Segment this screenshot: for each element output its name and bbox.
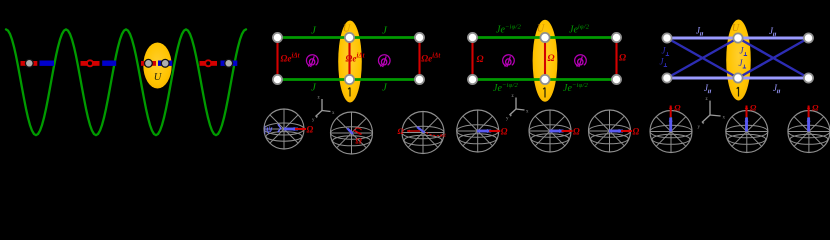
green link panel3 bottom2: [545, 78, 617, 81]
green link panel3 bottom1: [473, 78, 546, 81]
label 1 panel4 ellipse bottom: [737, 87, 739, 97]
label Jperp panel4 mid-lower: [739, 58, 747, 68]
red drive arrow sphere6: [621, 129, 632, 132]
navy diagonal Jperp panel4 down2: [738, 38, 809, 78]
well4 spin-up level (red): [200, 61, 218, 66]
interaction ellipse U panel4: [726, 20, 751, 101]
Bloch sphere 6 (panel3): [589, 110, 631, 152]
red drive arrow sphere3: [407, 130, 420, 133]
well3 atom on red level: [145, 59, 153, 67]
well3 spin-down level (blue): [158, 61, 172, 66]
green link J panel2 bottom2: [350, 78, 420, 81]
site panel2 bottom col1: [273, 75, 282, 84]
flux circle phi panel2 right plaquette: [378, 55, 390, 67]
well2 spin-up level (red): [81, 61, 100, 66]
svg-text:Ω: Ω: [812, 103, 819, 113]
svg-text:Ω: Ω: [398, 126, 405, 136]
green link panel3 top2: [545, 36, 617, 39]
svg-text:Ω: Ω: [548, 54, 555, 64]
site panel2 top col3: [415, 33, 424, 42]
well1 spin-down level (blue): [40, 61, 55, 66]
site panel3 bottom col2: [540, 75, 549, 84]
red drive arrow sphere2: [354, 130, 362, 135]
Bloch sphere 9 (panel4): [788, 111, 830, 153]
label Jperp panel4 left-upper: [662, 46, 670, 56]
site panel3 top col2: [540, 33, 549, 42]
well2 spin-down level (blue): [102, 61, 116, 66]
optical lattice potential: [6, 29, 246, 135]
label Jpar panel4 top-left: [696, 26, 703, 36]
site panel4 bottom col3: [804, 73, 813, 82]
green link J panel2 top1: [278, 36, 350, 39]
site panel3 bottom col3: [612, 75, 621, 84]
flux circle phi panel2 left plaquette: [306, 55, 318, 67]
interaction ellipse U well3: [143, 43, 171, 89]
svg-text:|ψ: |ψ: [264, 125, 273, 135]
svg-text:Ω: Ω: [573, 127, 580, 137]
site panel4 bottom col1: [662, 73, 671, 82]
svg-text:Ω: Ω: [477, 55, 484, 65]
site panel2 bottom col2: [345, 75, 354, 84]
lavender link Jpar panel4 bottom2: [738, 77, 809, 80]
site panel4 top col2: [733, 33, 742, 42]
blue state arrow sphere6: [609, 129, 623, 133]
label Jpar panel4 bottom-left: [704, 83, 711, 93]
Bloch sphere 3 (panel2 rotating drive): [402, 112, 444, 154]
label Jperp panel4 left-lower: [660, 57, 668, 67]
Bloch sphere 7 (panel4): [650, 111, 692, 153]
svg-text:U: U: [732, 23, 740, 34]
site panel4 bottom col2: [733, 73, 742, 82]
well1 spin-up level (red): [21, 61, 38, 66]
site panel3 bottom col1: [468, 75, 477, 84]
label 1 panel3 ellipse bottom: [543, 88, 545, 98]
svg-text:Ω: Ω: [307, 125, 314, 135]
site panel4 top col1: [662, 33, 671, 42]
flux circle phi panel3 left plaquette: [503, 55, 515, 67]
navy diagonal Jperp panel4 up1: [667, 38, 738, 78]
green link J panel2 bottom1: [278, 78, 350, 81]
site panel4 top col3: [804, 33, 813, 42]
site panel2 bottom col3: [415, 75, 424, 84]
svg-text:Ω: Ω: [356, 136, 363, 146]
svg-text:Ω: Ω: [501, 127, 508, 137]
well4 empty state (red ring): [205, 60, 211, 66]
svg-text:Ω: Ω: [750, 103, 757, 113]
site panel2 top col1: [273, 33, 282, 42]
red drive arrow sphere4: [489, 129, 500, 132]
site panel3 top col1: [468, 33, 477, 42]
lavender link Jpar panel4 bottom1: [667, 77, 738, 80]
red dashed rotation path sphere3: [426, 133, 442, 136]
red rotation arc sphere2: [355, 128, 362, 130]
navy diagonal Jperp panel4 down1: [667, 38, 738, 78]
label 1 panel2 ellipse bottom: [348, 88, 350, 97]
interaction ellipse U panel2: [338, 21, 362, 103]
well4 spin-down level (blue): [221, 61, 238, 66]
lavender link Jpar panel4 top2: [738, 37, 809, 40]
green link J panel2 top2: [350, 36, 420, 39]
red rung panel3 col2: [544, 38, 546, 80]
red drive arrow sphere9: [807, 106, 810, 118]
blue state arrow sphere9: [807, 118, 811, 132]
site panel3 top col3: [612, 33, 621, 42]
blue state arrow sphere8: [745, 118, 749, 132]
red rung panel2 col3: [418, 38, 420, 80]
site panel2 top col2: [345, 33, 354, 42]
blue state arrow sphere5: [550, 129, 564, 133]
red drive arrow sphere1: [295, 127, 306, 130]
svg-text:ωt: ωt: [440, 133, 446, 139]
navy diagonal Jperp panel4 up2: [738, 38, 809, 78]
blue state arrow sphere7: [669, 118, 673, 132]
axes icon 3: [702, 101, 721, 125]
interaction ellipse U panel3: [533, 20, 558, 102]
blue state arrow sphere4: [477, 129, 491, 133]
well3 atom on blue level: [161, 59, 169, 67]
well2 empty state (red ring): [87, 60, 93, 66]
label Jperp panel4 mid-upper: [740, 46, 748, 56]
red rung panel3 col1: [471, 38, 473, 80]
label Jpar panel4 bottom-right: [773, 83, 780, 93]
blue state arrow sphere2: [347, 128, 353, 134]
well1 atom (grey): [25, 59, 33, 67]
red drive arrow sphere8: [745, 106, 748, 118]
svg-text:Ω: Ω: [633, 127, 640, 137]
axes icon 1: [316, 99, 331, 118]
red rung panel2 col2: [348, 38, 350, 80]
well3 spin-up level (red): [141, 61, 156, 66]
Bloch sphere 5 (panel3): [529, 110, 571, 152]
svg-text:Ω: Ω: [674, 103, 681, 113]
blue state arrow sphere3: [417, 127, 425, 133]
Bloch sphere 1 (panel2 lab frame): [264, 109, 304, 149]
lavender link Jpar panel4 top1: [667, 37, 738, 40]
red rung panel3 col3: [615, 38, 617, 80]
svg-text:Ω: Ω: [619, 54, 626, 64]
Bloch sphere 8 (panel4): [726, 111, 768, 153]
blue state arrow sphere1: [284, 127, 298, 131]
Bloch sphere 4 (panel3): [457, 110, 499, 152]
flux circle phi panel3 right plaquette: [575, 55, 587, 67]
red drive arrow sphere5: [562, 129, 573, 132]
green link panel3 top1: [473, 36, 546, 39]
label Jpar panel4 top-right: [769, 26, 776, 36]
Bloch sphere 2 (panel2 rotating frame): [331, 112, 373, 154]
well4 atom on blue level: [225, 59, 233, 67]
axes icon 2: [510, 98, 525, 117]
red rung panel2 col1: [276, 38, 278, 80]
red drive arrow sphere7: [669, 106, 672, 118]
label |psi> sphere1: [264, 124, 281, 135]
